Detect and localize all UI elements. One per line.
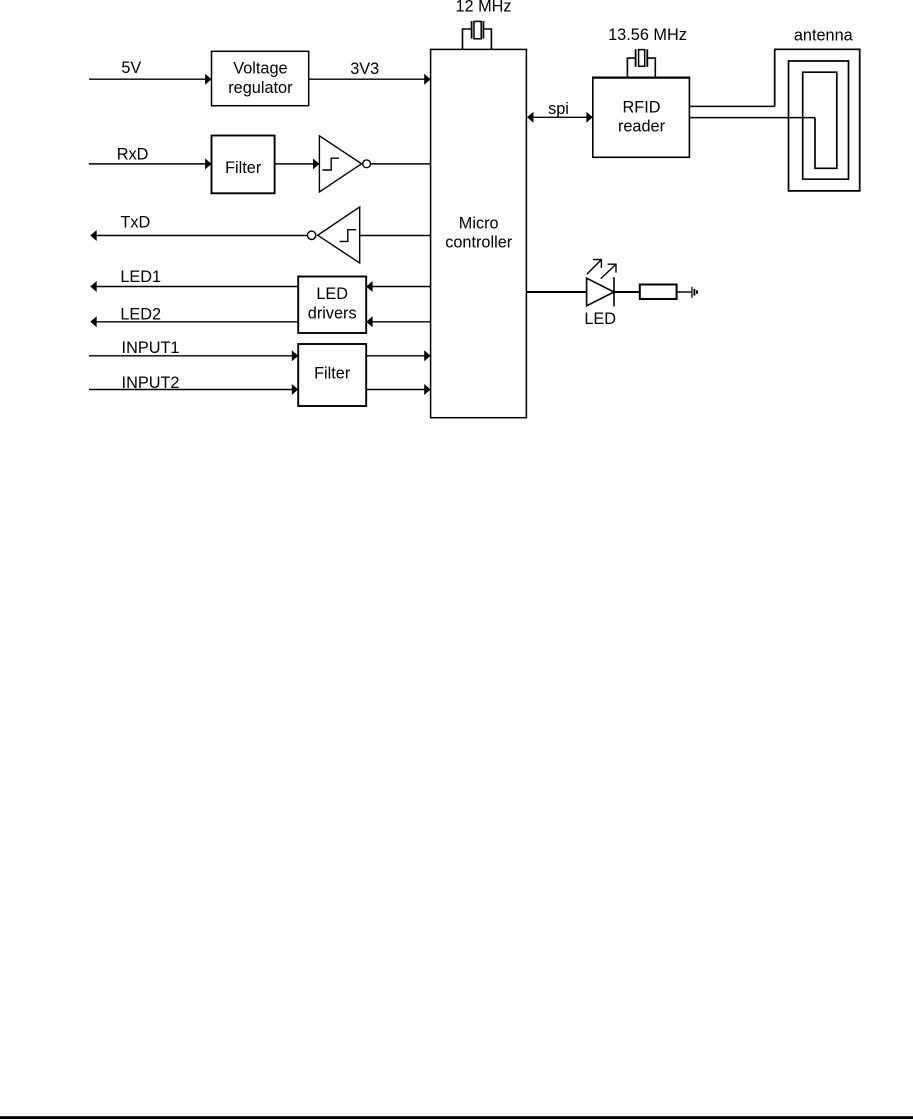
arrowhead 3V3 into microcontroller xyxy=(424,74,430,85)
wire RFID reader to antenna top xyxy=(689,105,774,107)
block Micro controller xyxy=(431,49,527,417)
wire 5V input xyxy=(89,78,206,80)
svg-text:12 MHz: 12 MHz xyxy=(455,0,511,16)
inversion bubble U3 xyxy=(307,231,315,239)
svg-text:reader: reader xyxy=(618,118,666,136)
arrowhead into LED drivers 2 xyxy=(366,316,372,327)
arrowhead LED2 output left xyxy=(90,316,96,327)
svg-text:13.56 MHz: 13.56 MHz xyxy=(608,26,687,44)
wire INPUT1 xyxy=(89,355,293,357)
schmitt inverter U2 (RxD) xyxy=(319,136,361,192)
crystal Y2 right plate xyxy=(646,49,648,67)
ground bar 1 xyxy=(691,287,693,298)
wire microcontroller to LED anode xyxy=(526,291,586,293)
crystal Y2 body xyxy=(639,50,645,67)
arrowhead LED1 output left xyxy=(90,281,96,292)
resistor R1 xyxy=(640,285,677,300)
crystal Y1 left plate xyxy=(471,21,473,38)
wire microcontroller to LED drivers 1 xyxy=(372,286,431,288)
block Filter (RxD) xyxy=(212,136,275,194)
block RFID reader xyxy=(593,78,690,158)
LED D1 emission arrow 1 xyxy=(587,260,602,275)
svg-text:5V: 5V xyxy=(121,59,141,77)
svg-text:Filter: Filter xyxy=(225,159,262,177)
svg-text:regulator: regulator xyxy=(228,79,293,97)
LED D1 emission arrow 2 xyxy=(601,264,616,279)
schmitt hysteresis symbol U3 xyxy=(340,230,357,242)
wire microcontroller to LED drivers 2 xyxy=(372,321,431,323)
svg-text:drivers: drivers xyxy=(308,304,357,322)
RFID reader top edge xyxy=(592,76,690,78)
svg-text:RxD: RxD xyxy=(117,145,149,163)
ground bar 2 xyxy=(693,289,695,296)
arrowhead TxD output left xyxy=(90,230,96,241)
arrowhead spi at microcontroller xyxy=(527,112,533,123)
schmitt inverter U3 (TxD) xyxy=(318,207,360,263)
wire TxD output xyxy=(95,235,307,237)
wire 3V3 xyxy=(309,78,425,80)
wire RFID reader to antenna inner xyxy=(689,117,815,119)
svg-text:LED: LED xyxy=(584,310,616,328)
wire filter to schmitt inverter xyxy=(275,163,314,165)
wire filter to microcontroller input 1 xyxy=(366,355,425,357)
block LED drivers xyxy=(298,277,366,334)
wire resistor to ground xyxy=(677,291,692,293)
svg-text:controller: controller xyxy=(445,234,513,252)
wire RxD input xyxy=(89,163,206,165)
arrowhead INPUT1 into filter xyxy=(292,350,298,361)
wire INPUT2 xyxy=(89,389,293,391)
block Filter (inputs) xyxy=(298,344,366,406)
arrowhead into LED drivers 1 xyxy=(366,281,372,292)
crystal Y1 right plate xyxy=(482,21,484,38)
arrowhead input1 into microcontroller xyxy=(424,350,430,361)
wire LED2 output xyxy=(95,321,298,323)
block Voltage regulator xyxy=(212,51,309,105)
arrowhead input2 into microcontroller xyxy=(424,384,430,395)
svg-text:INPUT1: INPUT1 xyxy=(122,339,180,357)
svg-text:TxD: TxD xyxy=(120,213,150,231)
svg-text:Filter: Filter xyxy=(314,364,351,382)
ground bar 3 xyxy=(696,290,698,293)
wire LED cathode to resistor xyxy=(614,291,640,293)
wire filter to microcontroller input 2 xyxy=(366,389,425,391)
svg-text:spi: spi xyxy=(548,100,569,118)
LED D1 triangle xyxy=(587,278,614,306)
svg-text:LED1: LED1 xyxy=(120,268,161,286)
crystal Y1 body xyxy=(474,21,481,38)
antenna coil L1 xyxy=(775,49,860,191)
schmitt hysteresis symbol U2 xyxy=(322,158,339,170)
svg-text:LED2: LED2 xyxy=(120,306,161,324)
arrowhead RxD into filter xyxy=(205,158,211,169)
wire microcontroller to schmitt TxD xyxy=(360,235,431,237)
LED D1 cathode bar xyxy=(613,277,615,306)
arrowhead INPUT2 into filter xyxy=(292,384,298,395)
crystal Y2 left plate xyxy=(635,49,637,67)
arrowhead spi at RFID reader xyxy=(586,112,592,123)
svg-text:Micro: Micro xyxy=(459,215,499,233)
svg-text:3V3: 3V3 xyxy=(350,60,379,78)
wire spi bus xyxy=(529,116,590,118)
footer rule xyxy=(0,1116,913,1119)
arrowhead into schmitt inverter xyxy=(313,158,319,169)
inversion bubble U2 xyxy=(363,160,371,168)
wire LED1 output xyxy=(95,286,298,288)
wire schmitt to microcontroller xyxy=(371,163,431,165)
crystal Y1 legs xyxy=(463,29,492,49)
arrowhead 5V into voltage regulator xyxy=(205,74,211,85)
svg-text:antenna: antenna xyxy=(794,26,854,44)
crystal Y2 legs xyxy=(627,58,655,78)
svg-text:LED: LED xyxy=(316,285,348,303)
svg-text:RFID: RFID xyxy=(623,98,661,116)
svg-text:Voltage: Voltage xyxy=(233,60,287,78)
